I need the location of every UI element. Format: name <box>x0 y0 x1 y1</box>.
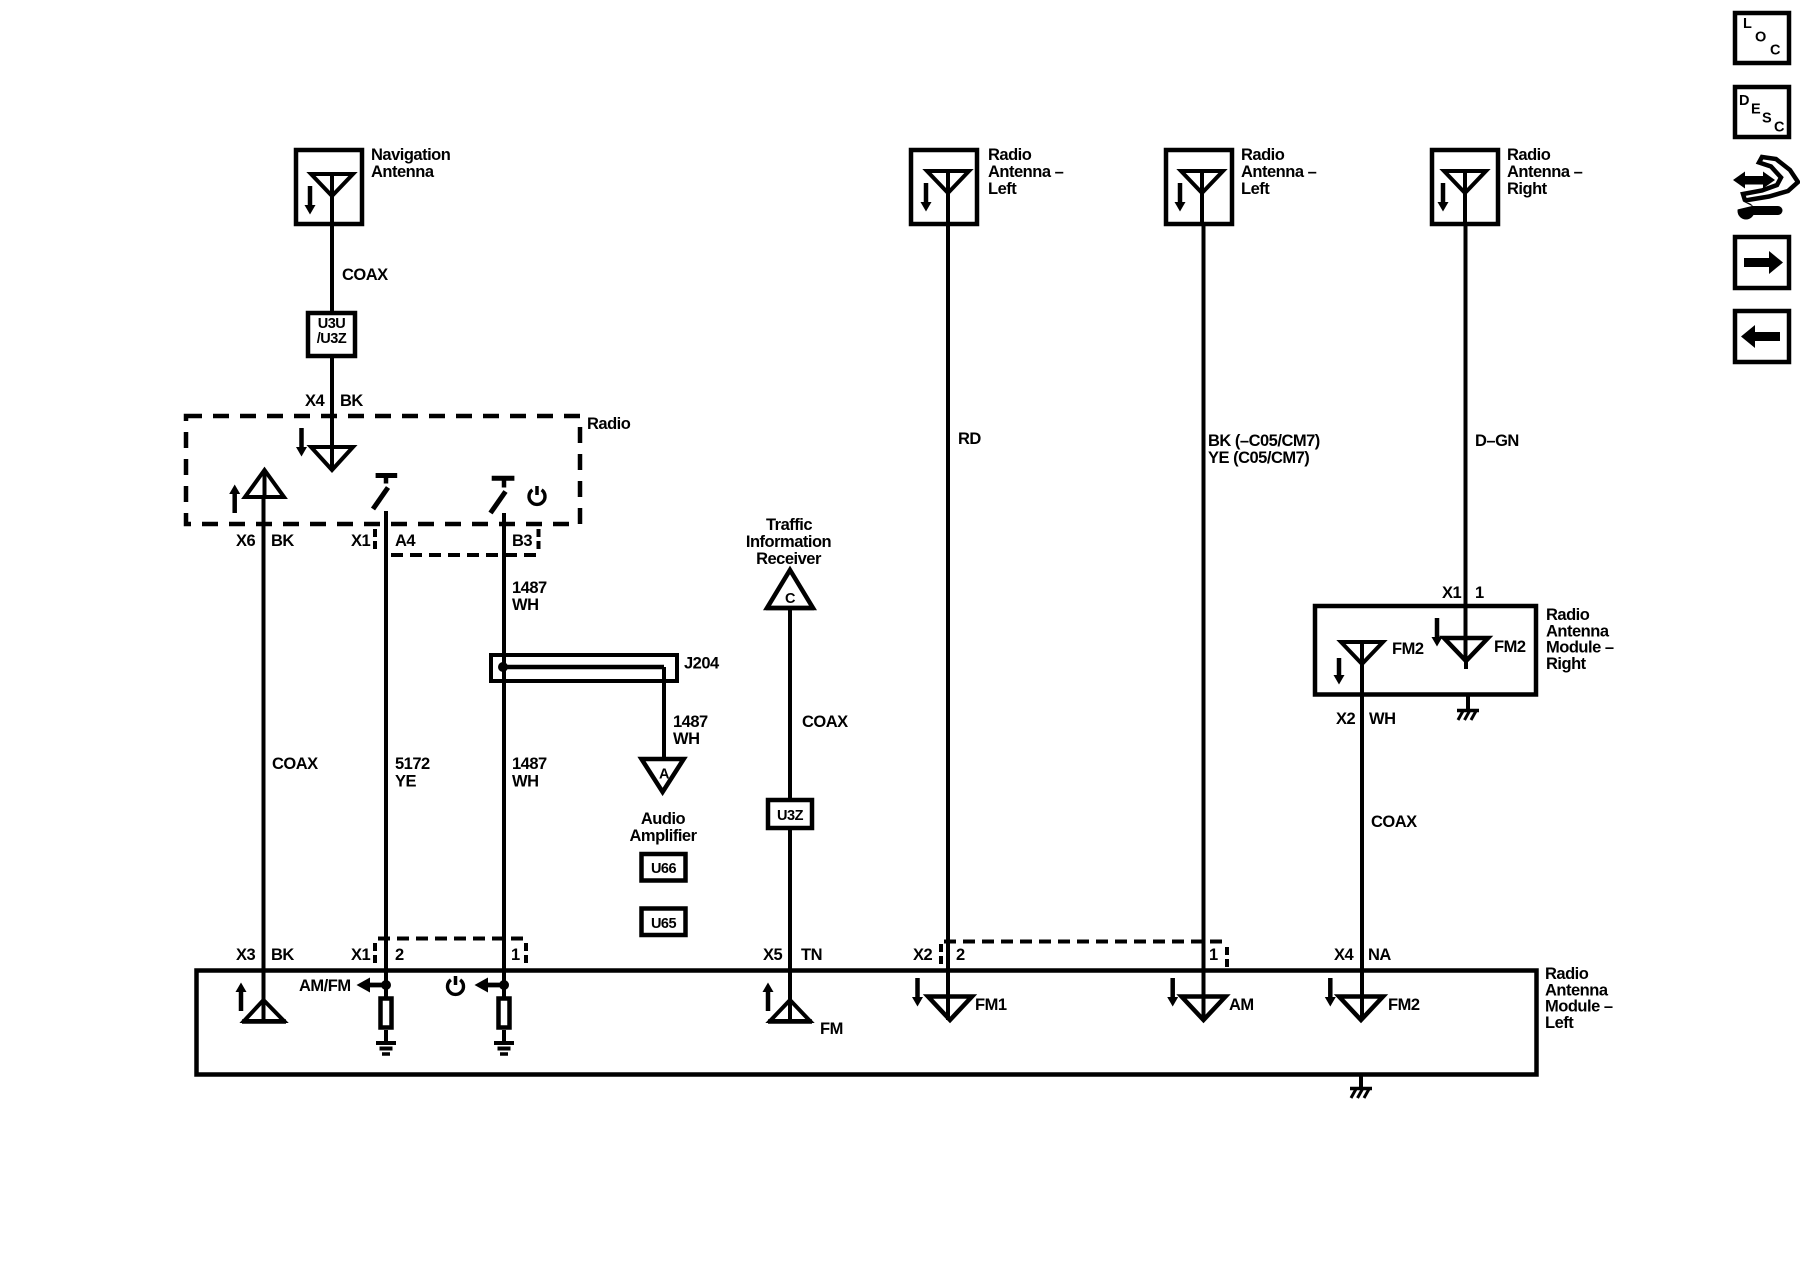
svg-text:X3: X3 <box>236 946 256 964</box>
svg-text:COAX: COAX <box>342 266 388 284</box>
svg-text:WH: WH <box>673 730 700 748</box>
connector X1 radio dashed bracket <box>375 529 539 555</box>
module right FM2 right arrow <box>1432 618 1443 647</box>
wire B3 1487 WH <box>502 513 506 997</box>
wire coax from navigation antenna <box>330 222 334 313</box>
module right FM2 left arrow <box>1334 658 1345 685</box>
svg-text:X2: X2 <box>913 946 933 964</box>
radio antenna left 1 box <box>911 150 977 224</box>
radio antenna left 2 arrow <box>1175 183 1186 212</box>
radio X6 up arrow <box>229 485 240 514</box>
svg-text:Radio: Radio <box>1507 146 1551 164</box>
icon LOC button <box>1735 13 1789 63</box>
radio switch contact B3 <box>491 478 515 513</box>
svg-text:Radio: Radio <box>1545 965 1589 983</box>
module left FM1 triangle <box>928 997 972 1021</box>
svg-text:C: C <box>1774 120 1785 136</box>
radio box dashed <box>186 416 580 524</box>
svg-text:Antenna: Antenna <box>371 163 435 181</box>
radio antenna right symbol <box>1444 171 1486 224</box>
svg-text:2: 2 <box>395 946 404 964</box>
svg-text:Traffic: Traffic <box>766 516 812 534</box>
svg-text:YE: YE <box>395 773 417 791</box>
wire resistor 2 to ground <box>384 1030 388 1041</box>
svg-text:U65: U65 <box>651 916 677 932</box>
module left FM2 triangle <box>1339 997 1383 1021</box>
radio switch contact A4 <box>373 476 397 510</box>
svg-text:L: L <box>1743 16 1752 32</box>
svg-text:WH: WH <box>1369 710 1396 728</box>
module left X3 antenna symbol <box>242 1000 286 1022</box>
ground symbol 1 <box>494 1043 514 1054</box>
splice pack J204 <box>491 655 677 681</box>
svg-text:Radio: Radio <box>587 415 631 433</box>
module right FM2 right triangle <box>1444 638 1488 661</box>
svg-text:Radio: Radio <box>988 146 1032 164</box>
module left AM/FM arrow <box>299 977 391 995</box>
radio X6 antenna symbol <box>245 470 284 497</box>
audio amplifier triangle A <box>642 759 684 792</box>
wire coax traffic receiver <box>788 608 792 1021</box>
svg-text:U3U: U3U <box>318 316 346 332</box>
svg-text:D–GN: D–GN <box>1475 432 1519 450</box>
svg-text:COAX: COAX <box>272 755 318 773</box>
navigation antenna down arrow <box>305 186 316 215</box>
svg-text:Antenna –: Antenna – <box>1241 163 1317 181</box>
svg-text:1487: 1487 <box>512 579 547 597</box>
svg-text:X1: X1 <box>351 946 371 964</box>
svg-text:Antenna –: Antenna – <box>1507 163 1583 181</box>
svg-text:BK: BK <box>271 946 294 964</box>
radio antenna left 1 arrow <box>921 183 932 212</box>
svg-text:B3: B3 <box>512 532 532 550</box>
svg-text:Radio: Radio <box>1241 146 1285 164</box>
navigation antenna box <box>296 150 362 224</box>
icon harness double-arrow with wrench <box>1731 157 1798 220</box>
svg-text:C: C <box>785 591 796 607</box>
radio antenna left 1 symbol <box>927 171 969 224</box>
module right chassis ground <box>1457 695 1479 721</box>
svg-text:RD: RD <box>958 430 981 448</box>
svg-text:1487: 1487 <box>673 713 708 731</box>
svg-text:D: D <box>1739 93 1749 109</box>
svg-text:COAX: COAX <box>1371 813 1417 831</box>
svg-text:S: S <box>1762 111 1772 127</box>
wire BK YE <box>1202 222 1206 1020</box>
svg-text:BK (–C05/CM7): BK (–C05/CM7) <box>1208 432 1320 450</box>
svg-text:U66: U66 <box>651 861 677 877</box>
svg-text:COAX: COAX <box>802 713 848 731</box>
svg-text:Antenna: Antenna <box>1545 981 1609 999</box>
svg-text:X5: X5 <box>763 946 783 964</box>
module left AM down arrow <box>1167 978 1178 1007</box>
module left X5 up arrow <box>763 983 774 1012</box>
svg-text:X6: X6 <box>236 532 256 550</box>
svg-text:Navigation: Navigation <box>371 146 451 164</box>
wire X4 BK <box>330 356 334 470</box>
svg-text:A: A <box>659 767 670 783</box>
svg-text:Antenna –: Antenna – <box>988 163 1064 181</box>
module left FM1 down arrow <box>912 978 923 1007</box>
module left resistor 2 <box>381 999 392 1028</box>
svg-text:Information: Information <box>746 533 832 551</box>
wire J204 to audio amplifier <box>662 667 666 759</box>
ground symbol 2 <box>376 1043 396 1054</box>
radio antenna module left box <box>197 971 1537 1075</box>
svg-text:1: 1 <box>511 946 520 964</box>
icon DESC button <box>1735 87 1789 137</box>
svg-text:X4: X4 <box>305 392 326 410</box>
svg-text:AM: AM <box>1229 996 1254 1014</box>
svg-text:X1: X1 <box>1442 584 1462 602</box>
radio antenna-in triangle <box>311 447 353 470</box>
connector X2 module left dashed bracket <box>941 942 1227 970</box>
svg-text:Audio: Audio <box>641 810 686 828</box>
radio antenna right arrow <box>1438 183 1449 212</box>
svg-text:X1: X1 <box>351 532 371 550</box>
svg-text:FM2: FM2 <box>1388 996 1420 1014</box>
connector X1 module left dashed bracket <box>375 939 526 967</box>
svg-text:5172: 5172 <box>395 755 430 773</box>
svg-text:WH: WH <box>512 596 539 614</box>
module left resistor 1 <box>499 999 510 1028</box>
RPO box U3Z <box>768 800 812 828</box>
svg-text:Module –: Module – <box>1546 639 1614 657</box>
svg-text:Right: Right <box>1507 180 1548 198</box>
svg-text:Left: Left <box>1241 180 1270 198</box>
wire resistor 1 to ground <box>502 1030 506 1041</box>
svg-text:TN: TN <box>801 946 822 964</box>
icon back arrow button <box>1735 311 1789 362</box>
svg-text:Left: Left <box>988 180 1017 198</box>
svg-text:FM1: FM1 <box>975 996 1007 1014</box>
icon forward arrow button <box>1735 237 1789 288</box>
module left power symbol <box>448 976 464 994</box>
svg-text:Amplifier: Amplifier <box>629 827 697 845</box>
svg-text:FM: FM <box>820 1020 843 1038</box>
svg-text:1: 1 <box>1475 584 1484 602</box>
svg-text:1: 1 <box>1209 946 1218 964</box>
svg-text:Receiver: Receiver <box>756 550 822 568</box>
svg-text:J204: J204 <box>684 655 720 673</box>
svg-text:WH: WH <box>512 773 539 791</box>
radio antenna left 2 symbol <box>1181 171 1223 224</box>
wire A4 5172 YE <box>384 511 388 997</box>
svg-text:/U3Z: /U3Z <box>317 331 347 347</box>
radio power symbol <box>529 486 545 504</box>
RPO box U66 <box>642 854 686 881</box>
module left FM2 down arrow <box>1325 978 1336 1007</box>
svg-text:X4: X4 <box>1334 946 1355 964</box>
svg-text:Antenna: Antenna <box>1546 622 1610 640</box>
radio antenna module right box <box>1315 606 1536 695</box>
navigation antenna symbol <box>311 174 353 224</box>
svg-text:Right: Right <box>1546 655 1587 673</box>
wire X6 coax <box>262 497 266 1021</box>
module left X5 FM antenna symbol <box>768 1000 812 1022</box>
svg-text:FM2: FM2 <box>1494 638 1526 656</box>
svg-text:X2: X2 <box>1336 710 1356 728</box>
svg-text:BK: BK <box>271 532 294 550</box>
wire RD <box>946 222 950 1020</box>
radio antenna-in arrow <box>296 428 307 457</box>
svg-text:YE (C05/CM7): YE (C05/CM7) <box>1208 449 1309 467</box>
module left chassis ground <box>1350 1077 1372 1099</box>
svg-text:O: O <box>1755 30 1766 46</box>
svg-text:Radio: Radio <box>1546 606 1590 624</box>
svg-text:BK: BK <box>340 392 363 410</box>
wire D-GN <box>1464 222 1468 661</box>
svg-text:2: 2 <box>956 946 965 964</box>
svg-text:U3Z: U3Z <box>777 808 804 824</box>
radio antenna right box <box>1432 150 1498 224</box>
module left power arrow <box>475 978 510 993</box>
svg-text:1487: 1487 <box>512 755 547 773</box>
traffic receiver triangle C <box>766 570 814 608</box>
svg-text:A4: A4 <box>395 532 416 550</box>
RPO box U65 <box>642 909 686 936</box>
svg-text:Left: Left <box>1545 1014 1574 1032</box>
svg-text:AM/FM: AM/FM <box>299 977 351 995</box>
svg-text:NA: NA <box>1368 946 1391 964</box>
RPO box U3U/U3Z <box>308 313 355 356</box>
radio antenna left 2 box <box>1166 150 1232 224</box>
svg-text:E: E <box>1751 102 1761 118</box>
svg-text:FM2: FM2 <box>1392 640 1424 658</box>
svg-text:C: C <box>1770 43 1781 59</box>
module right FM2 left triangle <box>1341 642 1383 1020</box>
svg-text:Module –: Module – <box>1545 998 1613 1016</box>
module left AM triangle <box>1182 997 1226 1021</box>
module left X3 up arrow <box>236 983 247 1012</box>
